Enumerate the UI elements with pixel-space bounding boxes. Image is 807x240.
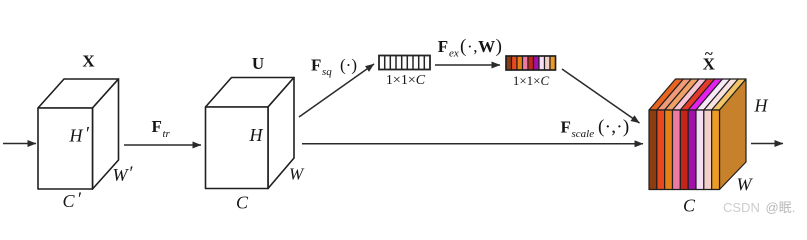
- label W': [113, 163, 134, 185]
- svg-text:(·): (·): [340, 56, 357, 75]
- svg-text:@眠.: @眠.: [766, 200, 796, 215]
- label W (output): [737, 175, 754, 195]
- svg-text:sq: sq: [322, 66, 332, 78]
- label W: [289, 165, 305, 184]
- label F_sq: [311, 56, 357, 79]
- label C (output): [683, 196, 696, 216]
- label 1x1xC (white bar): [386, 73, 426, 88]
- svg-text:W: W: [289, 165, 305, 184]
- svg-text:1×1×C: 1×1×C: [386, 73, 426, 88]
- svg-text:1×1×C: 1×1×C: [513, 73, 550, 88]
- label C': [63, 189, 82, 211]
- svg-text:H: H: [69, 126, 84, 146]
- output arrow: [751, 143, 783, 145]
- svg-text:W: W: [113, 165, 130, 185]
- label U: [252, 54, 264, 73]
- label F_ex: [438, 36, 503, 60]
- label C: [236, 193, 249, 213]
- svg-text:(·,W): (·,W): [460, 36, 503, 57]
- svg-text:scale: scale: [572, 128, 595, 140]
- svg-text:H: H: [249, 125, 264, 145]
- svg-text:W: W: [737, 175, 754, 195]
- svg-text:X: X: [82, 52, 95, 71]
- svg-text:′: ′: [128, 163, 133, 184]
- svg-text:F: F: [561, 117, 571, 136]
- svg-text:tr: tr: [163, 128, 171, 140]
- svg-text:F: F: [152, 117, 162, 136]
- input arrow: [3, 143, 36, 145]
- svg-text:′: ′: [77, 189, 82, 210]
- label X: [82, 52, 95, 71]
- svg-text:U: U: [252, 54, 264, 73]
- label F_scale: [561, 116, 630, 140]
- svg-text:ex: ex: [449, 47, 459, 59]
- front face stripes: [649, 110, 657, 190]
- squeeze vector bar 1x1xC (white): [379, 56, 430, 70]
- svg-text:~: ~: [705, 47, 713, 63]
- svg-text:C: C: [683, 196, 696, 216]
- svg-text:C: C: [63, 191, 76, 211]
- svg-text:F: F: [438, 37, 448, 56]
- svg-text:CSDN: CSDN: [723, 200, 760, 215]
- F_ex arrow: [435, 64, 500, 66]
- F_tr arrow: [124, 144, 201, 146]
- svg-text:C: C: [236, 193, 249, 213]
- svg-text:H: H: [754, 96, 769, 116]
- F_sq arrow: [299, 64, 374, 117]
- CSDN watermark: [723, 200, 795, 215]
- svg-text:F: F: [311, 56, 321, 75]
- label H (output): [754, 96, 769, 116]
- tensor U cuboid: [206, 78, 295, 189]
- top face stripes: [649, 79, 683, 110]
- F_scale arrow: [302, 143, 643, 145]
- right face: [720, 79, 747, 190]
- tensor X-tilde cuboid (scaled output): [649, 79, 746, 190]
- label F_tr: [152, 117, 171, 140]
- svg-text:(·,·): (·,·): [598, 116, 630, 137]
- label X-tilde: [703, 47, 716, 74]
- label H': [69, 124, 90, 146]
- tensor X cuboid: [38, 79, 119, 189]
- scale diagonal arrow: [562, 69, 640, 123]
- label 1x1xC (coloured bar): [513, 73, 550, 88]
- excitation vector bar 1x1xC (coloured): [506, 56, 556, 70]
- label H: [249, 125, 264, 145]
